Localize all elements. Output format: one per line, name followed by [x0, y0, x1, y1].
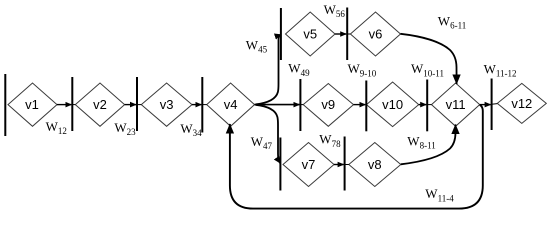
edge v4 to v5 curve W45	[256, 35, 282, 105]
edge v9 to v10 arrow	[354, 104, 366, 106]
edge v11 to v4 loop W11-4	[230, 105, 483, 209]
svg-text:W23: W23	[114, 120, 136, 137]
svg-text:v10: v10	[382, 97, 403, 112]
wire bar to v11	[427, 104, 431, 106]
svg-text:W78: W78	[319, 132, 341, 149]
wire bar to v6	[347, 33, 350, 35]
node v11	[432, 83, 480, 126]
svg-text:v9: v9	[321, 97, 335, 112]
edge v6 to v11 curve W6-11	[401, 34, 457, 84]
bar between v3 and v4	[201, 77, 203, 133]
node v6	[350, 12, 400, 56]
svg-text:W49: W49	[288, 61, 310, 78]
edge v8 to v11 curve W8-11	[401, 125, 456, 165]
node v12	[497, 83, 546, 123]
svg-text:v4: v4	[224, 97, 238, 112]
node v10	[367, 82, 419, 127]
svg-text:v5: v5	[303, 27, 317, 42]
node v5	[286, 12, 336, 56]
node v2	[75, 83, 124, 126]
bar between v9 and v10	[365, 81, 367, 132]
svg-text:W34: W34	[180, 121, 202, 138]
edge v2 to v3 arrow	[125, 104, 136, 106]
edge v10 to v11 arrow	[419, 104, 427, 106]
svg-text:v11: v11	[446, 97, 466, 112]
wire bar to v8	[345, 164, 349, 166]
svg-text:W11-4: W11-4	[425, 186, 454, 203]
svg-text:v6: v6	[369, 27, 383, 42]
bar between v10 and v11	[426, 80, 428, 132]
edge v11 to v12 arrow	[480, 104, 491, 106]
svg-text:W47: W47	[251, 134, 273, 151]
edge v4 to v7 curve W47	[256, 105, 281, 163]
svg-text:W6-11: W6-11	[438, 13, 466, 30]
bar left of v5	[280, 8, 282, 60]
node v7	[283, 143, 334, 187]
node v8	[349, 143, 401, 187]
wire bar to v2	[72, 104, 75, 106]
svg-text:v7: v7	[302, 157, 316, 172]
bar start	[4, 74, 6, 136]
bar between v2 and v3	[136, 77, 138, 131]
svg-text:v12: v12	[511, 96, 532, 111]
bar between v11 and v12	[491, 79, 493, 131]
svg-text:v2: v2	[93, 97, 107, 112]
svg-text:W11-12: W11-12	[484, 61, 517, 78]
wire bar to v10	[365, 104, 367, 106]
edge v1 to v2 arrow	[57, 104, 71, 106]
svg-text:W12: W12	[46, 119, 67, 136]
bar between v5 and v6	[346, 8, 348, 61]
node v3	[141, 83, 192, 126]
node v4	[207, 83, 255, 126]
edge v4 to v9 arrow	[255, 104, 300, 106]
wire bar to v12	[492, 103, 498, 106]
edge v3 to v4 arrow	[192, 104, 201, 106]
bar between v4 and v9	[299, 79, 301, 131]
svg-text:W45: W45	[246, 37, 268, 54]
svg-text:W8-11: W8-11	[407, 133, 435, 150]
wire bar to v3	[137, 104, 141, 106]
svg-text:W10-11: W10-11	[411, 61, 444, 78]
bar left of v7	[279, 138, 281, 191]
bar between v1 and v2	[71, 77, 73, 131]
svg-text:v8: v8	[368, 157, 382, 172]
edge v7 to v8 arrow	[334, 164, 344, 166]
wire bar to v9	[300, 104, 303, 106]
svg-text:W9-10: W9-10	[348, 61, 377, 78]
svg-text:v3: v3	[160, 97, 174, 112]
svg-text:v1: v1	[25, 97, 39, 112]
node v1	[8, 83, 57, 126]
edge v5 to v6 arrow	[335, 33, 346, 35]
wire bar to v4	[202, 104, 206, 106]
bar between v7 and v8	[344, 137, 346, 191]
node v9	[303, 84, 353, 127]
svg-text:W56: W56	[324, 2, 346, 19]
